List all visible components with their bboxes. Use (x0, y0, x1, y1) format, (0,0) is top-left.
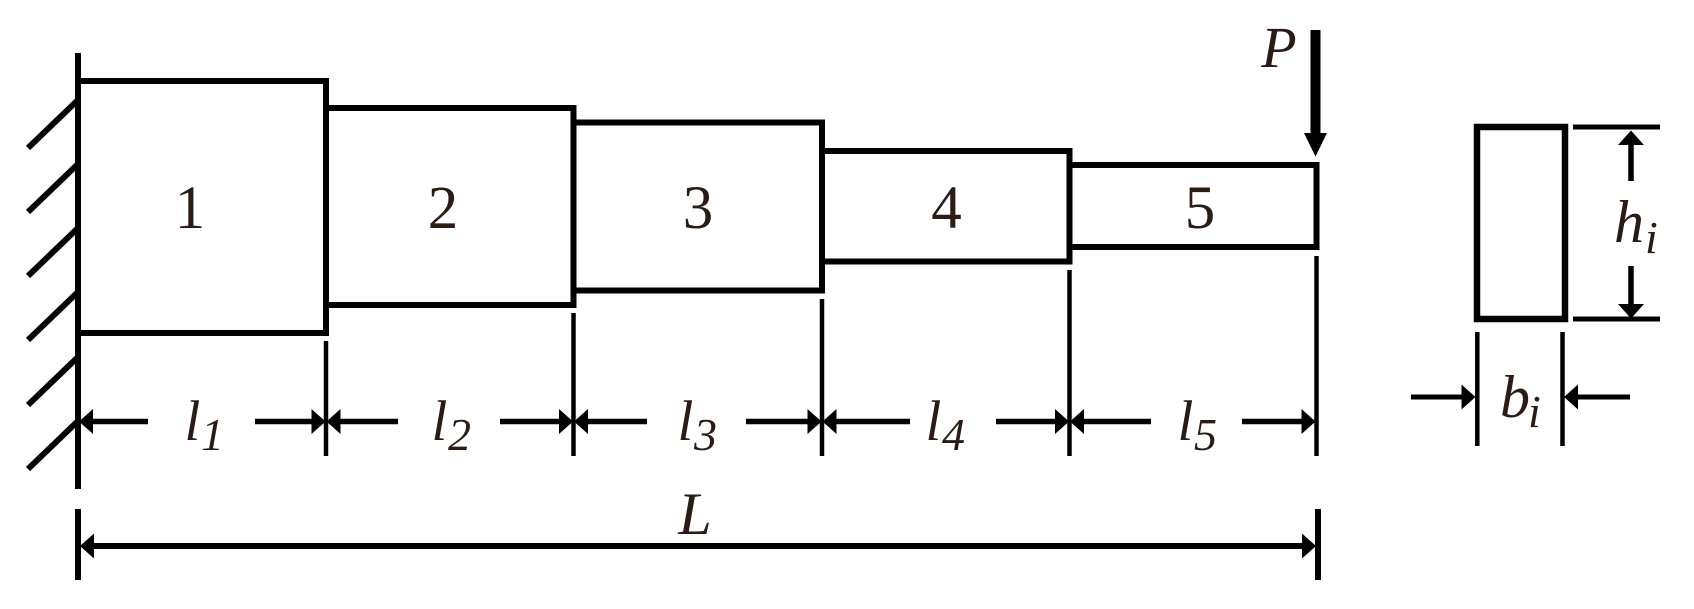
wall hatch 3 (28, 227, 79, 276)
load P arrowhead (1304, 133, 1327, 157)
height extension line top (1573, 125, 1660, 130)
dimension l4 left segment (835, 419, 910, 425)
height dimension up arrowhead (1618, 131, 1644, 146)
width dimension right shaft (1578, 395, 1630, 400)
svg-text:l: l (432, 390, 448, 453)
beam segment 5 outline (1070, 165, 1317, 247)
total length right extension tick (1315, 509, 1321, 580)
extension line below joint 2-3 (571, 313, 576, 456)
height dimension lower shaft (1628, 266, 1634, 305)
dimension l2 right segment (500, 419, 560, 425)
extension line below free end (1314, 256, 1319, 456)
svg-text:P: P (1260, 15, 1296, 80)
extension line below joint 4-5 (1067, 270, 1072, 456)
svg-text:i: i (1645, 212, 1658, 263)
dimension l3 right segment (746, 419, 808, 425)
dimension l1 left arrowhead (79, 409, 93, 434)
height extension line bottom (1573, 317, 1660, 322)
svg-text:l: l (185, 390, 201, 453)
dimension l4 left arrowhead (823, 409, 837, 434)
svg-text:1: 1 (175, 175, 206, 242)
total length left arrowhead (80, 534, 94, 559)
beam segment 3 outline (574, 123, 823, 291)
svg-text:4: 4 (931, 175, 962, 242)
dimension l1 right segment (255, 419, 313, 425)
svg-text:3: 3 (683, 175, 714, 242)
svg-text:b: b (1500, 364, 1530, 430)
beam segment 4 outline (822, 151, 1070, 262)
dimension l3 left arrowhead (574, 409, 588, 434)
width dimension left arrowhead (1462, 385, 1476, 410)
extension line below joint 3-4 (820, 299, 825, 456)
dimension l2 right arrowhead (559, 409, 573, 434)
total length right arrowhead (1302, 534, 1316, 559)
svg-text:L: L (677, 481, 711, 547)
svg-text:2: 2 (428, 175, 459, 242)
dimension l1 left segment (90, 419, 148, 425)
svg-text:h: h (1614, 189, 1644, 255)
svg-text:2: 2 (448, 409, 471, 460)
width extension line left (1475, 332, 1480, 446)
wall hatch 4 (28, 291, 79, 340)
svg-text:i: i (1528, 386, 1541, 437)
height dimension upper shaft (1628, 144, 1634, 182)
svg-text:l: l (1178, 390, 1194, 453)
dimension l3 left segment (587, 419, 647, 425)
svg-text:5: 5 (1194, 409, 1217, 460)
wall hatch 6 (28, 420, 79, 469)
cross-section rectangle (1477, 127, 1565, 319)
svg-text:1: 1 (201, 409, 224, 460)
beam segment 1 outline (78, 81, 326, 333)
dimension l5 right arrowhead (1302, 409, 1316, 434)
total length dimension line (92, 543, 1304, 549)
dimension l2 left arrowhead (327, 409, 341, 434)
dimension l5 right segment (1242, 419, 1304, 425)
dimension l5 left segment (1083, 419, 1151, 425)
svg-text:4: 4 (942, 409, 965, 460)
dimension l2 left segment (339, 419, 398, 425)
extension line below joint 1-2 (324, 341, 329, 456)
beam segment 2 outline (326, 108, 574, 305)
wall hatch 2 (28, 163, 79, 212)
dimension l4 right segment (996, 419, 1056, 425)
svg-text:5: 5 (1185, 175, 1216, 242)
total length left extension tick (75, 509, 81, 580)
width dimension right arrowhead (1564, 385, 1578, 410)
dimension l3 right arrowhead (808, 409, 822, 434)
svg-text:l: l (926, 390, 942, 453)
width extension line right (1560, 332, 1565, 446)
height dimension down arrowhead (1618, 304, 1644, 319)
wall hatch 5 (28, 356, 79, 405)
dimension l1 right arrowhead (312, 409, 326, 434)
svg-text:l: l (678, 390, 694, 453)
dimension l5 left arrowhead (1070, 409, 1084, 434)
wall hatch 1 (28, 99, 79, 148)
dimension l4 right arrowhead (1055, 409, 1069, 434)
fixed wall line (75, 53, 81, 489)
width dimension left shaft (1411, 395, 1462, 400)
svg-text:3: 3 (693, 409, 717, 460)
load P arrow shaft (1311, 30, 1321, 135)
